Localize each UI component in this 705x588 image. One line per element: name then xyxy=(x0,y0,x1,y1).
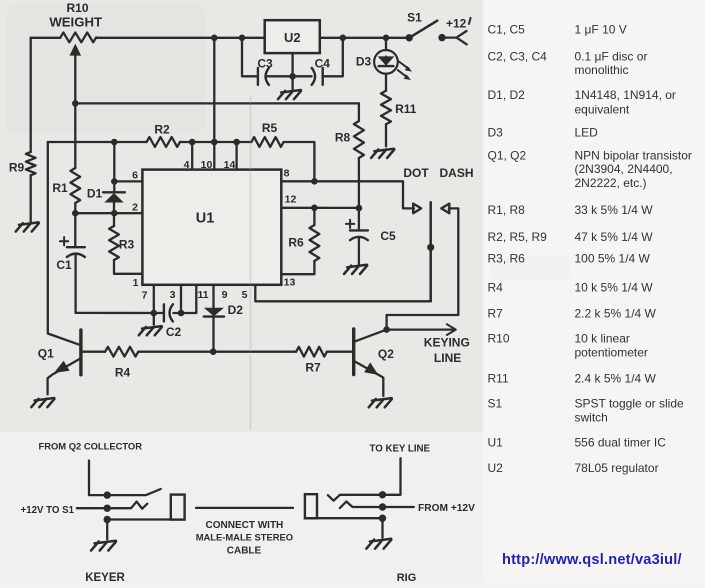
svg-text:4: 4 xyxy=(184,159,190,171)
svg-text:C4: C4 xyxy=(315,57,331,71)
svg-text:C1: C1 xyxy=(56,258,72,272)
svg-text:10 k linear: 10 k linear xyxy=(575,332,630,346)
svg-text:100 5% 1/4 W: 100 5% 1/4 W xyxy=(575,251,651,265)
svg-text:6: 6 xyxy=(132,170,138,182)
svg-text:FROM Q2 COLLECTOR: FROM Q2 COLLECTOR xyxy=(39,440,143,451)
svg-text:LINE: LINE xyxy=(434,351,461,365)
svg-text:C5: C5 xyxy=(380,229,396,243)
svg-text:Q1, Q2: Q1, Q2 xyxy=(488,149,527,163)
svg-text:2.4 k 5% 1/4 W: 2.4 k 5% 1/4 W xyxy=(575,372,657,386)
svg-text:D2: D2 xyxy=(228,303,244,317)
svg-text:10: 10 xyxy=(201,159,213,171)
svg-text:U2: U2 xyxy=(284,30,301,45)
svg-text:LED: LED xyxy=(575,126,599,140)
svg-text:S1: S1 xyxy=(407,11,422,25)
svg-text:S1: S1 xyxy=(488,397,503,411)
svg-text:D3: D3 xyxy=(488,126,504,140)
svg-text:WEIGHT: WEIGHT xyxy=(49,15,102,30)
svg-text:0.1 μF disc or: 0.1 μF disc or xyxy=(575,50,648,64)
svg-text:+12V TO S1: +12V TO S1 xyxy=(21,505,75,516)
svg-text:RIG: RIG xyxy=(397,572,417,583)
svg-text:U1: U1 xyxy=(196,211,215,227)
svg-text:monolithic: monolithic xyxy=(575,63,629,77)
svg-text:U2: U2 xyxy=(488,461,504,475)
svg-text:33 k 5% 1/4 W: 33 k 5% 1/4 W xyxy=(575,203,654,217)
svg-text:1N4148, 1N914, or: 1N4148, 1N914, or xyxy=(575,88,676,102)
svg-text:CONNECT WITH: CONNECT WITH xyxy=(206,520,284,531)
svg-text:http://www.qsl.net/va3iul/: http://www.qsl.net/va3iul/ xyxy=(502,552,682,568)
svg-text:R3, R6: R3, R6 xyxy=(488,251,526,265)
svg-text:R1: R1 xyxy=(52,181,68,195)
svg-text:R7: R7 xyxy=(488,307,504,321)
svg-text:KEYER: KEYER xyxy=(85,572,125,583)
svg-text:R1, R8: R1, R8 xyxy=(488,203,526,217)
svg-text:switch: switch xyxy=(575,411,608,425)
svg-text:556 dual timer IC: 556 dual timer IC xyxy=(575,436,667,450)
svg-text:Q1: Q1 xyxy=(38,347,54,361)
svg-text:R2, R5, R9: R2, R5, R9 xyxy=(488,230,548,244)
svg-text:C2, C3, C4: C2, C3, C4 xyxy=(488,50,548,64)
svg-text:11: 11 xyxy=(197,289,208,301)
svg-text:R4: R4 xyxy=(488,281,504,295)
svg-text:2N2222, etc.): 2N2222, etc.) xyxy=(575,176,647,190)
svg-text:1 μF 10 V: 1 μF 10 V xyxy=(575,23,627,37)
svg-text:MALE-MALE STEREO: MALE-MALE STEREO xyxy=(196,532,293,543)
svg-text:1: 1 xyxy=(133,277,139,289)
svg-text:potentiometer: potentiometer xyxy=(575,346,648,360)
svg-text:SPST toggle or slide: SPST toggle or slide xyxy=(575,397,684,411)
svg-text:R11: R11 xyxy=(395,102,417,116)
svg-text:(2N3904, 2N4400,: (2N3904, 2N4400, xyxy=(575,162,673,176)
svg-text:NPN bipolar transistor: NPN bipolar transistor xyxy=(575,149,692,163)
svg-text:U1: U1 xyxy=(488,436,504,450)
svg-text:R5: R5 xyxy=(262,121,278,135)
svg-text:DOT: DOT xyxy=(403,166,429,180)
svg-text:R11: R11 xyxy=(488,372,509,386)
svg-text:R10: R10 xyxy=(66,1,88,15)
svg-text:R4: R4 xyxy=(115,366,131,380)
svg-text:R6: R6 xyxy=(288,235,304,249)
svg-text:D1, D2: D1, D2 xyxy=(488,88,526,102)
svg-text:2.2 k 5% 1/4 W: 2.2 k 5% 1/4 W xyxy=(575,307,657,321)
svg-text:3: 3 xyxy=(170,289,176,301)
svg-text:14: 14 xyxy=(224,159,236,171)
svg-text:Q2: Q2 xyxy=(378,347,394,361)
svg-text:9: 9 xyxy=(222,289,228,301)
svg-text:7: 7 xyxy=(142,290,148,302)
svg-text:CABLE: CABLE xyxy=(227,545,262,556)
svg-text:78L05 regulator: 78L05 regulator xyxy=(575,461,659,475)
svg-text:C3: C3 xyxy=(257,57,273,71)
svg-text:FROM +12V: FROM +12V xyxy=(418,503,475,514)
svg-text:R10: R10 xyxy=(488,332,510,346)
svg-text:13: 13 xyxy=(284,276,296,288)
svg-text:DASH: DASH xyxy=(439,166,473,180)
svg-text:2: 2 xyxy=(132,202,138,214)
svg-text:R3: R3 xyxy=(119,238,135,252)
svg-text:10 k 5% 1/4 W: 10 k 5% 1/4 W xyxy=(575,281,654,295)
svg-text:R9: R9 xyxy=(9,161,25,175)
svg-text:D1: D1 xyxy=(87,186,103,200)
svg-text:5: 5 xyxy=(242,289,248,301)
svg-text:C1, C5: C1, C5 xyxy=(488,23,526,37)
svg-text:equivalent: equivalent xyxy=(575,102,630,116)
svg-text:D3: D3 xyxy=(356,55,372,69)
svg-text:47 k 5% 1/4 W: 47 k 5% 1/4 W xyxy=(575,230,654,244)
svg-text:KEYING: KEYING xyxy=(424,336,470,350)
svg-text:R7: R7 xyxy=(305,361,321,375)
svg-text:R2: R2 xyxy=(154,123,170,137)
svg-text:TO KEY LINE: TO KEY LINE xyxy=(370,443,431,454)
svg-text:8: 8 xyxy=(284,168,290,180)
svg-text:12: 12 xyxy=(285,193,297,205)
svg-text:C2: C2 xyxy=(166,325,182,339)
svg-text:+12: +12 xyxy=(446,16,467,30)
svg-text:R8: R8 xyxy=(335,131,351,145)
